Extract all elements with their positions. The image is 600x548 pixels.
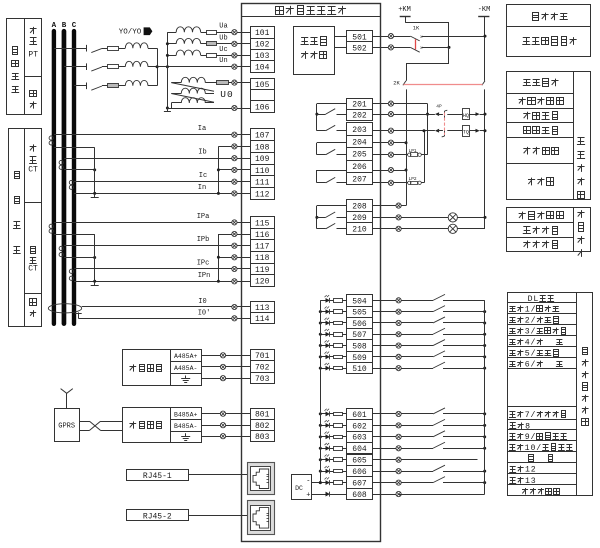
terminal 109 xyxy=(251,153,275,165)
contact to 202 xyxy=(317,114,326,116)
current-circuit label box 电流回路/测量CT/保护CT/零序 xyxy=(9,129,42,327)
terminal 502 xyxy=(347,42,373,54)
terminal blank spacer xyxy=(251,90,275,101)
meas CT common vertical with ground xyxy=(94,148,96,195)
terminal 101 xyxy=(251,27,275,39)
terminal 204 xyxy=(347,136,373,148)
svg-text:Ia: Ia xyxy=(198,125,206,133)
contact to 203 xyxy=(317,130,326,132)
svg-text:IPb: IPb xyxy=(197,236,210,244)
voltage-circuit label box 电压回路/测量PT/零序 xyxy=(7,19,42,115)
RJ45-1 label box xyxy=(127,470,189,481)
svg-text:8: 8 xyxy=(525,422,530,431)
-KM vertical lower xyxy=(484,89,486,228)
terminal 701 xyxy=(251,350,275,361)
terminal 504 opto input xyxy=(347,295,373,307)
twisted pair GPRS to comm box xyxy=(80,421,90,423)
terminal 703 xyxy=(251,373,275,384)
wire module to 502 xyxy=(334,47,347,49)
terminal 119 xyxy=(251,264,275,275)
wire 205 row xyxy=(372,154,408,156)
svg-text:-: - xyxy=(306,477,310,485)
svg-text:802: 802 xyxy=(255,422,270,431)
svg-text:703: 703 xyxy=(255,375,270,384)
terminal 501 xyxy=(347,31,373,42)
svg-text:B485A-: B485A- xyxy=(174,423,197,430)
wire 702 xyxy=(201,366,250,368)
svg-text:/: / xyxy=(531,304,536,314)
svg-text:103: 103 xyxy=(255,52,270,61)
PT primary phase C tap: isolator, fuse, winding xyxy=(74,85,87,87)
terminal 104 xyxy=(251,61,275,73)
svg-text:CT: CT xyxy=(28,265,38,274)
terminal 114 xyxy=(251,313,275,324)
svg-text:104: 104 xyxy=(255,64,270,73)
meas CT B return wire xyxy=(64,169,95,171)
svg-text:/: / xyxy=(531,326,536,336)
svg-text:C: C xyxy=(72,22,77,30)
measurement CT phase A xyxy=(49,136,53,140)
svg-text:Un: Un xyxy=(219,57,227,65)
svg-text:GPRS: GPRS xyxy=(58,423,75,431)
protection CT phase A xyxy=(49,224,53,228)
svg-text:1: 1 xyxy=(525,444,530,453)
wire 701 xyxy=(201,355,250,357)
terminal 118 xyxy=(251,252,275,264)
PT secondary winding Ua to terminal 101 xyxy=(167,32,176,34)
svg-text:510: 510 xyxy=(352,365,367,374)
terminal 117 xyxy=(251,240,275,252)
measurement CT phase C xyxy=(69,180,73,184)
svg-text:509: 509 xyxy=(352,354,367,363)
U0 return line to terminal 106 xyxy=(167,108,250,110)
terminal 206 xyxy=(347,161,373,173)
table signal outputs 信号输出 xyxy=(507,208,591,252)
terminal 113 xyxy=(251,302,275,313)
prot terminal-side neutral jumper 116-118-120 xyxy=(218,234,220,281)
breaker 1K tie bar xyxy=(415,39,417,49)
terminal 802 xyxy=(251,420,275,431)
input common wire 608 row xyxy=(484,494,486,496)
PT primary phase A tap: isolator, fuse, winding xyxy=(54,48,87,50)
input contact row 601 xyxy=(433,408,445,414)
terminal 203 xyxy=(347,123,373,136)
terminal 112 xyxy=(251,188,275,200)
terminal 607 opto input xyxy=(347,477,373,489)
controller outline 智能保护控制器 xyxy=(242,4,381,542)
switch 2K tie bar xyxy=(404,84,483,86)
svg-text:608: 608 xyxy=(352,491,367,500)
svg-text:508: 508 xyxy=(352,342,367,351)
switch 2K pole right xyxy=(482,81,485,85)
table remote inputs 遥信采集输入端 xyxy=(508,293,593,496)
svg-text:107: 107 xyxy=(255,132,270,141)
input contact row 604 xyxy=(433,442,445,448)
input contact row 508 xyxy=(433,340,445,346)
terminal 510 opto input xyxy=(347,363,373,374)
input contact row 509 xyxy=(433,351,445,357)
terminal 111 xyxy=(251,176,275,188)
svg-text:502: 502 xyxy=(352,44,367,53)
svg-text:702: 702 xyxy=(255,364,270,373)
bus bar phase C xyxy=(72,29,76,326)
terminal 209 xyxy=(347,212,373,223)
terminal 105 xyxy=(251,79,275,90)
svg-text:206: 206 xyxy=(352,163,367,172)
svg-text:1: 1 xyxy=(525,477,530,486)
+KM feed wire xyxy=(405,22,449,24)
svg-text:2K: 2K xyxy=(393,79,400,86)
svg-text:0: 0 xyxy=(227,89,233,100)
svg-text:803: 803 xyxy=(255,433,270,442)
wire RJ45-2 to jack xyxy=(188,515,247,517)
svg-text:2: 2 xyxy=(531,466,536,475)
svg-text:IPa: IPa xyxy=(197,213,210,221)
svg-text:601: 601 xyxy=(352,411,367,420)
terminal 507 opto input xyxy=(347,329,373,340)
input contact row 607 xyxy=(433,477,445,483)
svg-text:106: 106 xyxy=(255,103,270,112)
terminal 102 xyxy=(251,39,275,50)
svg-text:/: / xyxy=(536,443,541,453)
PT primary phase B tap: isolator, fuse, winding xyxy=(64,66,87,68)
svg-text:9: 9 xyxy=(525,433,530,442)
svg-text:IPn: IPn xyxy=(198,272,211,280)
input contact row 505 xyxy=(433,306,445,312)
svg-text:108: 108 xyxy=(255,143,270,152)
svg-text:DC: DC xyxy=(295,485,303,492)
relay group 201-203 bracket xyxy=(317,103,347,105)
terminal 107 xyxy=(251,129,275,141)
Ib line to terminal 109 xyxy=(64,158,250,160)
terminal 116 xyxy=(251,229,275,240)
terminal 115 xyxy=(251,217,275,229)
I0' tap and line to terminal 114 xyxy=(78,312,80,318)
svg-text:I0: I0 xyxy=(198,298,206,306)
svg-text:112: 112 xyxy=(255,190,270,199)
input contact row 603 xyxy=(433,431,445,437)
svg-text:L: L xyxy=(533,295,538,304)
svg-text:A485A+: A485A+ xyxy=(174,353,198,360)
meas terminal-side neutral jumper 108-110-112 xyxy=(218,146,220,193)
I0 line to terminal 113 xyxy=(82,306,250,308)
svg-text:+KM: +KM xyxy=(398,6,411,14)
svg-text:202: 202 xyxy=(352,112,367,121)
svg-text:105: 105 xyxy=(255,81,270,90)
input contact row 606 xyxy=(433,465,445,471)
svg-text:120: 120 xyxy=(255,277,270,286)
GPRS module with antenna xyxy=(55,409,80,442)
wire 803 xyxy=(201,436,250,438)
PT secondary neutral Un line to terminal 104 xyxy=(157,66,250,68)
prot CT A return wire xyxy=(54,234,95,236)
svg-text:YO/YO: YO/YO xyxy=(119,29,142,37)
IPc line to terminal 119 xyxy=(74,268,250,270)
svg-text:606: 606 xyxy=(352,468,367,477)
wire 203 row to TQ xyxy=(372,130,435,132)
comm interface box 1 通讯接口 A485 xyxy=(123,350,202,386)
svg-text:1K: 1K xyxy=(413,25,420,32)
contact to 205 xyxy=(317,154,326,156)
wire 207 row xyxy=(372,182,408,184)
breaker aux 4P linkage xyxy=(444,113,446,136)
svg-text:A: A xyxy=(52,22,57,30)
wire 202 row to HQ xyxy=(372,114,435,116)
terminal 207 xyxy=(347,173,373,185)
table power bus 电源母线/装置工作电源 xyxy=(507,5,591,57)
control bus V1 xyxy=(406,89,408,205)
svg-text:PT: PT xyxy=(28,50,38,59)
svg-text:207: 207 xyxy=(352,176,367,185)
svg-text:204: 204 xyxy=(352,138,367,147)
svg-text:117: 117 xyxy=(255,243,270,252)
svg-text:102: 102 xyxy=(255,41,270,50)
IPb line to terminal 117 xyxy=(64,245,250,247)
protection CT phase B xyxy=(59,246,63,250)
terminal 106 xyxy=(251,101,275,113)
input contact row 5010 xyxy=(433,362,445,368)
wire 801 xyxy=(201,413,250,415)
svg-text:209: 209 xyxy=(352,214,367,223)
svg-text:210: 210 xyxy=(352,226,367,235)
terminal 505 opto input xyxy=(347,307,373,318)
svg-text:3: 3 xyxy=(531,477,536,486)
terminal 702 xyxy=(251,361,275,373)
relay group 204-205 bracket xyxy=(317,142,347,144)
svg-text:205: 205 xyxy=(352,151,367,160)
svg-text:0: 0 xyxy=(530,444,535,453)
svg-text:Ub: Ub xyxy=(219,34,227,42)
svg-text:Ic: Ic xyxy=(199,172,207,180)
bus bar phase A xyxy=(52,29,56,326)
terminal 201 xyxy=(347,99,373,110)
contact to 209 xyxy=(317,217,326,219)
power supply module 装置电源模块 xyxy=(294,27,335,75)
fault lamp row 210 xyxy=(372,228,448,230)
svg-text:101: 101 xyxy=(255,29,270,38)
input contact row 602 xyxy=(433,419,445,425)
table control outputs 控制输出端 xyxy=(507,72,591,200)
zero-sequence CT ring xyxy=(48,304,81,313)
PT secondary winding Uc to terminal 103 xyxy=(167,55,176,57)
svg-text:801: 801 xyxy=(255,411,270,420)
relay group 208-210 bracket xyxy=(317,205,347,207)
wire 206 row xyxy=(372,170,406,172)
breaker 1K pole2 xyxy=(410,47,419,52)
terminal 801 xyxy=(251,409,275,420)
RJ45 jack 2 xyxy=(248,501,275,535)
IPn line from CT common to terminal 120 xyxy=(74,281,250,283)
svg-text:Ua: Ua xyxy=(219,23,227,31)
input collector vertical xyxy=(484,300,486,494)
svg-text:201: 201 xyxy=(352,101,367,110)
svg-text:110: 110 xyxy=(255,167,270,176)
terminal 120 xyxy=(251,275,275,287)
terminal 508 opto input xyxy=(347,340,373,352)
svg-text:114: 114 xyxy=(255,315,270,324)
terminal 108 xyxy=(251,141,275,153)
Ia line to terminal 107 xyxy=(54,134,250,136)
terminal 604 opto input xyxy=(347,443,373,454)
wire module to 501 xyxy=(334,36,347,38)
DC- wire to bus xyxy=(312,482,321,484)
svg-text:/: / xyxy=(531,359,536,369)
contact to 207 xyxy=(317,182,326,184)
input contact row 507 xyxy=(433,328,445,334)
wire 204 row xyxy=(372,142,406,144)
svg-text:607: 607 xyxy=(352,480,367,489)
svg-text:7: 7 xyxy=(525,411,530,420)
input contact row 506 xyxy=(433,317,445,323)
svg-text:113: 113 xyxy=(255,304,270,313)
meas CT A return wire xyxy=(54,147,95,149)
svg-text:118: 118 xyxy=(255,254,270,263)
IPa line to terminal 115 xyxy=(54,222,250,224)
svg-text:4P: 4P xyxy=(436,104,442,110)
contact to 210 xyxy=(317,228,326,230)
svg-text:/: / xyxy=(531,315,536,325)
svg-text:+: + xyxy=(306,492,310,500)
measurement CT phase B xyxy=(59,160,63,164)
svg-text:602: 602 xyxy=(352,422,367,431)
comm interface box 2 通讯接口 B485 xyxy=(123,408,202,443)
svg-text:/: / xyxy=(531,337,536,347)
svg-text:CT: CT xyxy=(28,166,38,175)
wire RJ45-1 to jack xyxy=(188,474,247,476)
terminal 803 xyxy=(251,431,275,442)
terminal 205 xyxy=(347,148,373,161)
terminal 202 xyxy=(347,110,373,121)
tripping coil TQ xyxy=(447,130,462,132)
svg-text:/: / xyxy=(531,348,536,358)
svg-text:603: 603 xyxy=(352,434,367,443)
svg-text:111: 111 xyxy=(255,179,270,188)
svg-text:6: 6 xyxy=(525,360,530,369)
svg-text:119: 119 xyxy=(255,266,270,275)
terminal 606 opto input xyxy=(347,466,373,477)
svg-text:5: 5 xyxy=(525,349,530,358)
protection CT phase C xyxy=(69,269,73,273)
svg-text:RJ45-1: RJ45-1 xyxy=(143,472,172,481)
PT primary star-point vertical xyxy=(157,48,159,86)
svg-text:4: 4 xyxy=(525,338,530,347)
svg-text:2: 2 xyxy=(525,316,530,325)
svg-text:U: U xyxy=(220,89,226,100)
svg-text:TQ: TQ xyxy=(463,130,469,136)
U0 open-delta winding with fuse to terminal 105 xyxy=(171,82,181,84)
closing coil HQ xyxy=(447,114,462,116)
relay group 206-207 bracket xyxy=(317,170,347,172)
RJ45-2 label box xyxy=(127,510,189,521)
terminal 509 opto input xyxy=(347,352,373,363)
svg-text:208: 208 xyxy=(352,203,367,212)
wire 201 row xyxy=(372,103,428,105)
svg-text:B: B xyxy=(62,22,67,30)
svg-text:In: In xyxy=(198,184,206,192)
terminal 601 opto input xyxy=(347,409,373,420)
breaker 1K pole1 xyxy=(422,36,485,38)
svg-text:3: 3 xyxy=(525,327,530,336)
svg-text:115: 115 xyxy=(255,219,270,228)
svg-text:505: 505 xyxy=(352,309,367,318)
terminal 208 xyxy=(347,200,373,212)
svg-text:604: 604 xyxy=(352,445,367,454)
RJ45 jack 1 xyxy=(248,463,275,495)
prot CT B return wire xyxy=(64,257,95,259)
terminal 103 xyxy=(251,50,275,61)
terminal 210 xyxy=(347,223,373,235)
svg-text:RJ45-2: RJ45-2 xyxy=(143,512,172,521)
svg-text:IPc: IPc xyxy=(197,260,210,268)
switch 2K pole left xyxy=(403,81,406,85)
terminal 605 opto input xyxy=(347,455,373,466)
svg-text:1: 1 xyxy=(525,305,530,314)
breaker aux 4P contact HQ row xyxy=(444,111,446,120)
svg-text:501: 501 xyxy=(352,33,367,42)
svg-text:A485A-: A485A- xyxy=(174,365,197,372)
opto common bus xyxy=(320,300,322,482)
DC supply box xyxy=(292,475,312,500)
prot CT common vertical with ground xyxy=(94,234,96,282)
terminal 608 opto input xyxy=(347,489,373,500)
jumper V2 201-202-205 xyxy=(427,104,429,155)
controller title bar xyxy=(242,16,381,18)
svg-text:701: 701 xyxy=(255,352,270,361)
svg-text:x: x xyxy=(420,46,423,51)
terminal 506 opto input xyxy=(347,318,373,329)
wire 802 xyxy=(201,425,250,427)
jumper V3 203-207 xyxy=(424,131,426,183)
terminal 603 opto input xyxy=(347,432,373,443)
svg-text:507: 507 xyxy=(352,331,367,340)
svg-text:I0': I0' xyxy=(198,309,211,317)
svg-text:x: x xyxy=(420,35,423,40)
svg-text:HQ: HQ xyxy=(463,113,469,119)
Ic line to terminal 111 xyxy=(74,181,250,183)
svg-text:Ib: Ib xyxy=(198,149,206,157)
wire 703 xyxy=(201,378,250,380)
PT secondary neutral vertical with ground xyxy=(167,32,169,108)
svg-text:109: 109 xyxy=(255,155,270,164)
In line from CT common to terminal 112 xyxy=(74,193,250,195)
svg-text:/: / xyxy=(531,410,536,420)
svg-text:/: / xyxy=(531,432,536,442)
svg-text:116: 116 xyxy=(255,231,270,240)
svg-text:B485A+: B485A+ xyxy=(174,411,198,418)
svg-text:605: 605 xyxy=(352,457,367,466)
terminal 110 xyxy=(251,165,275,176)
bus bar phase B xyxy=(62,29,67,326)
svg-text:1: 1 xyxy=(525,466,530,475)
svg-text:D: D xyxy=(528,295,533,304)
PT secondary winding Ub to terminal 102 xyxy=(167,43,176,45)
input contact row 504 xyxy=(433,294,445,300)
breaker aux 4P contact TQ row xyxy=(444,128,446,137)
terminal 602 opto input xyxy=(347,420,373,432)
alarm lamp row 209 xyxy=(372,217,448,219)
wire 208 signal common xyxy=(372,205,406,207)
svg-text:203: 203 xyxy=(352,126,367,135)
svg-text:506: 506 xyxy=(352,320,367,329)
svg-text:Uc: Uc xyxy=(219,46,227,54)
svg-text:-KM: -KM xyxy=(478,6,491,14)
svg-text:504: 504 xyxy=(352,297,367,306)
